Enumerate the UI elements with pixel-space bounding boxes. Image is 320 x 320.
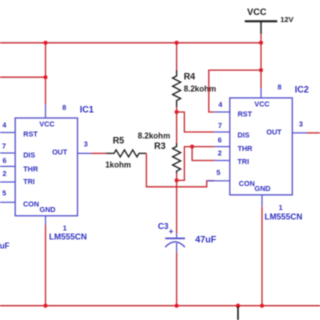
node junction VCC branch [259, 68, 263, 72]
node junction VCC rail [259, 41, 263, 45]
svg-text:6: 6 [218, 135, 222, 144]
resistor R4 [173, 70, 181, 107]
svg-text:VCC: VCC [39, 119, 54, 128]
wire IC2 GND to rail [261, 206, 263, 305]
node junction IC1 GND rail [44, 304, 48, 308]
IC2 pin 8 stub [260, 88, 262, 98]
svg-text:OUT: OUT [266, 127, 282, 136]
node junction R4 bottom [175, 110, 179, 114]
wire R4 bottom to IC2 pin7 [177, 112, 215, 132]
wire junction to IC2 pin2 [192, 147, 214, 161]
wire C3 bottom to ground rail [176, 253, 178, 306]
resistor R3 [173, 143, 181, 174]
IC1 pin 2 stub [0, 181, 16, 183]
svg-text:VCC: VCC [247, 7, 267, 17]
node junction R3 bottom [175, 178, 179, 182]
wire IC1 VCC column [45, 43, 47, 105]
svg-text:12V: 12V [280, 15, 293, 24]
IC1 pin 5 stub [0, 201, 16, 203]
wire R3 bottom up to THR/TRI junction [177, 147, 193, 181]
IC1 pin 4 stub [0, 132, 16, 134]
svg-text:GND: GND [255, 184, 271, 193]
node junction rail x176.6 [175, 41, 179, 45]
wire R5 to IC2 pin5 CON [146, 153, 214, 186]
wire VCC branch to IC2 pin4 RST [209, 70, 261, 112]
svg-text:4: 4 [218, 100, 222, 109]
svg-text:8: 8 [62, 103, 66, 112]
IC1 pin 3 stub [78, 152, 92, 154]
node junction C3 rail [175, 304, 179, 308]
wire IC1 OUT to R5 [92, 152, 107, 154]
IC2 pin 1 stub [261, 195, 263, 206]
node junction ground stem [236, 304, 240, 308]
wire IC2 OUT to right edge [307, 132, 320, 134]
svg-text:TRI: TRI [238, 157, 250, 166]
svg-text:R4: R4 [184, 71, 196, 81]
wire VCC top rail [0, 42, 261, 44]
IC1 pin 1 stub [45, 216, 47, 225]
timer IC1 LM555CN body [15, 118, 77, 216]
svg-text:C3: C3 [158, 221, 169, 231]
svg-text:THR: THR [238, 144, 254, 153]
IC1 pin 8 stub [45, 105, 47, 119]
IC2 pin 4 stub [214, 111, 229, 113]
svg-text:IC1: IC1 [80, 104, 94, 114]
wire VCC stem down [260, 43, 262, 70]
svg-text:2: 2 [3, 169, 7, 178]
svg-text:THR: THR [23, 164, 39, 173]
svg-text:47uF: 47uF [195, 235, 217, 245]
svg-text:1: 1 [279, 203, 283, 212]
IC2 pin 2 stub [214, 160, 229, 162]
svg-text:IC2: IC2 [295, 84, 309, 94]
wire R4 top from rail [176, 43, 178, 70]
IC1 pin 7 stub [0, 152, 16, 154]
IC1 pin 6 stub [0, 165, 16, 167]
wire R4 bottom [176, 107, 178, 112]
svg-text:5: 5 [216, 168, 220, 177]
ground symbol stem (cut off) [237, 306, 239, 320]
node junction at rail2 x46 [44, 75, 48, 79]
svg-text:3: 3 [84, 140, 88, 149]
node junction THR/TRI [190, 145, 194, 149]
svg-text:8.2kohm: 8.2kohm [184, 85, 216, 94]
wire R4 to R3 column [176, 112, 178, 143]
wire IC1 GND to rail [45, 225, 47, 306]
svg-text:7uF: 7uF [0, 241, 10, 250]
IC2 pin 7 stub [214, 131, 229, 133]
svg-text:1kohm: 1kohm [105, 160, 131, 169]
svg-text:VCC: VCC [254, 99, 269, 108]
svg-text:8: 8 [278, 83, 282, 92]
svg-text:OUT: OUT [52, 148, 68, 157]
svg-text:3: 3 [299, 119, 303, 128]
svg-text:7: 7 [218, 121, 222, 130]
ground rail [0, 305, 320, 307]
svg-text:TRI: TRI [23, 177, 35, 186]
wire R3 bottom [176, 174, 178, 181]
svg-text:8.2kohm: 8.2kohm [138, 132, 170, 141]
svg-text:4: 4 [2, 120, 6, 129]
wire VCC to IC2 pin8 [260, 70, 262, 88]
svg-text:7: 7 [2, 142, 6, 151]
svg-text:RST: RST [23, 130, 38, 139]
svg-text:GND: GND [40, 205, 56, 214]
svg-text:5: 5 [2, 188, 6, 197]
svg-text:6: 6 [3, 156, 7, 165]
svg-text:R3: R3 [154, 141, 166, 151]
svg-text:DIS: DIS [238, 130, 250, 139]
node junction IC2 GND rail [260, 304, 264, 308]
node junction at rail x46 [44, 41, 48, 45]
svg-text:LM555CN: LM555CN [49, 232, 87, 242]
timer IC2 LM555CN body [230, 98, 292, 195]
resistor R5 [106, 150, 146, 157]
wire VCC stem to rail [260, 34, 262, 43]
svg-text:DIS: DIS [23, 151, 35, 160]
capacitor C3 [165, 234, 185, 253]
svg-text:RST: RST [238, 109, 253, 118]
VCC power symbol [245, 7, 277, 34]
svg-text:+: + [169, 227, 174, 236]
svg-text:2: 2 [218, 149, 222, 158]
wire second rail to IC1 VCC column [0, 76, 46, 78]
svg-text:CON: CON [239, 179, 255, 188]
wire R3 bottom to C3 [176, 180, 178, 233]
svg-text:R5: R5 [113, 135, 125, 145]
IC2 pin 6 stub [214, 146, 229, 148]
IC2 pin 5 stub [207, 180, 230, 182]
IC2 pin 3 stub [292, 132, 306, 134]
wire junction to IC2 pin6 [192, 146, 214, 148]
svg-text:LM555CN: LM555CN [265, 212, 303, 222]
svg-text:CON: CON [23, 200, 39, 209]
